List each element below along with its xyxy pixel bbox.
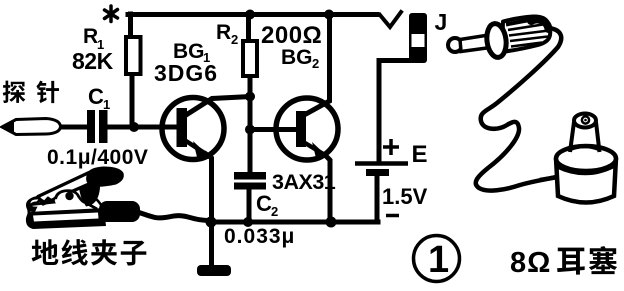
svg-text:R: R — [216, 21, 231, 44]
svg-text:3AX31: 3AX31 — [272, 170, 336, 194]
svg-text:J: J — [435, 9, 448, 35]
svg-text:R: R — [83, 25, 98, 48]
svg-text:E: E — [412, 141, 428, 168]
svg-text:0.033μ: 0.033μ — [224, 225, 295, 248]
svg-text:82K: 82K — [72, 48, 114, 74]
svg-text:2: 2 — [312, 56, 319, 71]
svg-text:0.1μ/400V: 0.1μ/400V — [47, 146, 148, 169]
svg-text:3DG6: 3DG6 — [154, 60, 218, 86]
svg-text:200Ω: 200Ω — [261, 22, 322, 49]
svg-text:BG: BG — [281, 46, 313, 69]
svg-text:2: 2 — [231, 32, 238, 47]
svg-text:C: C — [256, 191, 272, 216]
svg-text:2: 2 — [271, 204, 278, 219]
svg-text:8Ω: 8Ω — [510, 247, 551, 279]
svg-text:1: 1 — [103, 97, 110, 112]
svg-text:1.5V: 1.5V — [382, 184, 428, 209]
svg-text:C: C — [88, 84, 104, 109]
svg-text:1: 1 — [428, 239, 449, 281]
